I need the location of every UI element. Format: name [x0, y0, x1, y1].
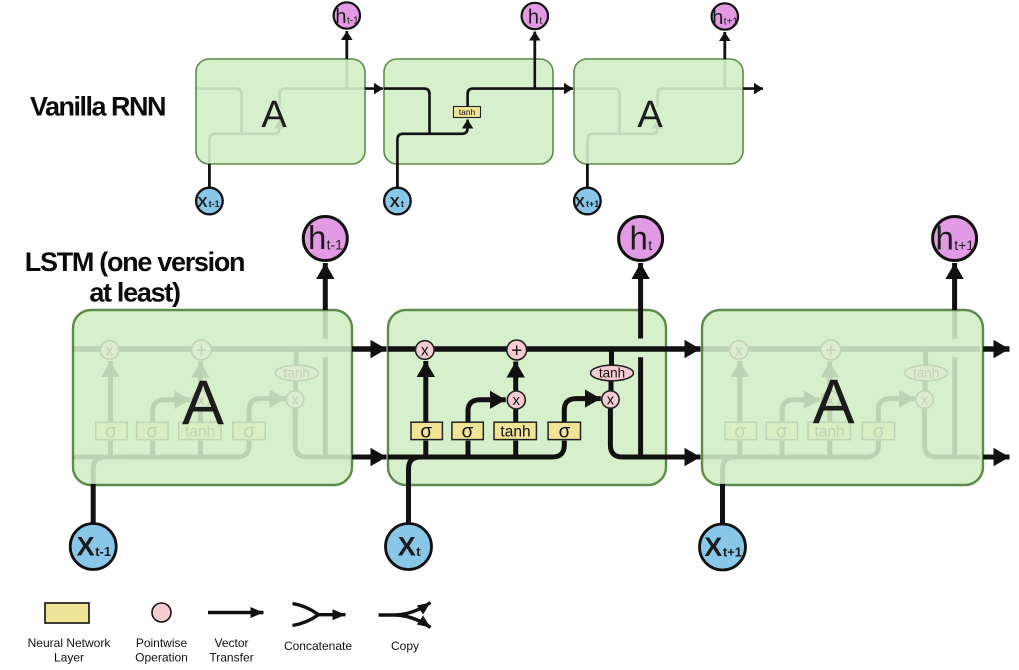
- legend neural network layer: [28, 603, 112, 665]
- legend vector transfer: [208, 613, 264, 665]
- svg-text:t+1: t+1: [954, 237, 974, 253]
- svg-text:t-1: t-1: [347, 16, 359, 27]
- wire h arrow above L2: [638, 263, 643, 310]
- svg-text:h: h: [308, 219, 326, 256]
- node X(t+1) LSTM: [700, 524, 746, 570]
- svg-text:h: h: [630, 220, 648, 257]
- wire h arrow above L3: [952, 263, 957, 310]
- svg-text:X: X: [398, 532, 416, 562]
- svg-text:t: t: [401, 199, 404, 209]
- RNN cell box A1: [196, 59, 365, 164]
- legend concatenate: [284, 604, 352, 654]
- svg-text:h: h: [712, 7, 723, 29]
- neural layer tanh (cell A2): [454, 107, 481, 118]
- svg-text:LSTM (one version: LSTM (one version: [25, 247, 244, 277]
- svg-text:t: t: [648, 237, 652, 253]
- svg-text:Vector: Vector: [214, 636, 248, 650]
- ghost internals cell A1: [196, 59, 385, 164]
- svg-text:Operation: Operation: [135, 651, 188, 665]
- svg-text:X: X: [198, 194, 208, 211]
- wire h arrow L1 to L2: [352, 455, 387, 460]
- wire x stub L3: [720, 484, 725, 524]
- wire x stub cell2: [396, 164, 399, 188]
- svg-text:t+1: t+1: [723, 545, 742, 560]
- svg-text:Transfer: Transfer: [209, 651, 253, 665]
- svg-text:t-1: t-1: [209, 199, 220, 209]
- svg-text:X: X: [77, 532, 95, 562]
- node h(t-1) LSTM: [303, 217, 347, 261]
- svg-text:t-1: t-1: [95, 544, 111, 559]
- svg-text:Vanilla RNN: Vanilla RNN: [30, 92, 165, 122]
- node x(t) RNN: [384, 188, 411, 215]
- legend pointwise operation: [135, 603, 188, 665]
- wire arrow A1 to A2: [365, 87, 383, 90]
- node h(t+1) RNN: [712, 3, 739, 29]
- node X(t-1) LSTM: [70, 524, 116, 570]
- svg-text:A: A: [813, 367, 855, 437]
- ghost internals cell L3: [702, 310, 980, 485]
- wire x stub cell3: [586, 164, 589, 188]
- node X(t) LSTM: [386, 524, 432, 570]
- wire x stub L1: [91, 484, 96, 524]
- svg-text:h: h: [335, 6, 346, 28]
- svg-text:Pointwise: Pointwise: [136, 636, 188, 650]
- svg-text:Copy: Copy: [391, 639, 419, 653]
- LSTM cell box L3: [702, 310, 983, 485]
- wire C arrow L1 to L2: [352, 346, 387, 351]
- wire x stub cell1: [208, 164, 211, 188]
- internals cell A2 wires: [384, 59, 573, 164]
- svg-text:t+1: t+1: [724, 17, 739, 28]
- ghost internals cell A3: [574, 59, 763, 164]
- node h(t+1) LSTM: [933, 217, 977, 261]
- svg-text:A: A: [261, 94, 287, 136]
- svg-text:t-1: t-1: [327, 237, 344, 253]
- node h(t) LSTM: [619, 217, 663, 261]
- svg-text:tanh: tanh: [459, 107, 476, 117]
- svg-text:h: h: [528, 7, 539, 29]
- node h(t-1) RNN: [334, 2, 360, 28]
- wire arrow A3 out: [743, 87, 763, 90]
- svg-text:t: t: [416, 544, 421, 559]
- RNN cell box A3: [574, 59, 743, 164]
- svg-text:Neural Network: Neural Network: [28, 636, 112, 650]
- LSTM cell box L1: [73, 310, 352, 485]
- svg-text:X: X: [704, 532, 722, 562]
- svg-text:A: A: [182, 368, 224, 438]
- wire C arrow L2 to L3: [666, 346, 701, 351]
- ghost internals cell L1: [73, 310, 351, 485]
- wire h arrow L3 out: [983, 455, 1010, 460]
- svg-text:at least): at least): [89, 278, 180, 308]
- wire C arrow L3 out: [983, 346, 1010, 351]
- svg-text:h: h: [936, 220, 954, 257]
- wire h arrow L2 to L3: [666, 455, 701, 460]
- svg-text:t: t: [540, 16, 543, 27]
- svg-text:X: X: [390, 194, 400, 211]
- legend copy: [379, 603, 431, 654]
- node h(t) RNN: [522, 3, 548, 29]
- svg-text:A: A: [637, 94, 663, 136]
- wire h arrow cell2: [533, 32, 536, 60]
- node x(t-1) RNN: [196, 188, 223, 215]
- internals cell L2: [388, 310, 666, 485]
- svg-text:Layer: Layer: [54, 651, 84, 665]
- LSTM cell box L2: [388, 310, 666, 485]
- wire h arrow cell3: [723, 32, 726, 59]
- RNN cell box A2: [384, 59, 553, 164]
- svg-text:t+1: t+1: [586, 199, 599, 209]
- wire x stub L2: [406, 484, 411, 524]
- wire h arrow above L1: [323, 263, 328, 310]
- svg-text:X: X: [575, 194, 585, 211]
- node x(t+1) RNN: [574, 188, 601, 215]
- svg-text:Concatenate: Concatenate: [284, 639, 352, 653]
- wire h arrow cell1: [345, 31, 348, 59]
